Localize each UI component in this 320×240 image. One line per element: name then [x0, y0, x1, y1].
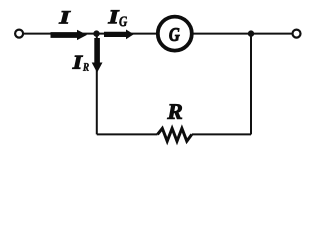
galvanometer U1 circle [158, 17, 192, 51]
wire bottom left corner to resistor [97, 133, 158, 135]
current arrow IR [92, 38, 103, 73]
label IG [108, 10, 119, 23]
resistor R zigzag [158, 128, 192, 141]
label I [59, 11, 70, 23]
wire node A to galvanometer [97, 33, 157, 35]
wire node B to right terminal [251, 33, 292, 35]
wire left terminal to node A [24, 33, 97, 35]
left terminal [15, 30, 23, 38]
wire resistor to bottom right corner [192, 133, 251, 135]
wire node A down to bottom left corner [96, 34, 98, 135]
node A junction dot [93, 30, 99, 36]
wire galvanometer to node B [194, 33, 252, 35]
wire node B down to bottom right corner [250, 34, 252, 135]
current arrow I [51, 30, 88, 40]
current arrow IG [104, 30, 134, 40]
galvanometer label G [169, 28, 179, 41]
label R [167, 104, 182, 119]
label IR [73, 56, 83, 69]
right terminal [293, 30, 301, 38]
node B junction dot [248, 30, 254, 36]
